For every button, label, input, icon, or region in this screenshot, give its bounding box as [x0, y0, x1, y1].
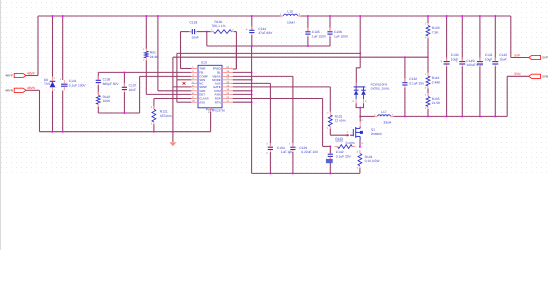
- junction RSN junction: [251, 93, 253, 95]
- junction C142 rail: [329, 172, 331, 174]
- ground symbol: [172, 132, 174, 142]
- wire 48VN lead: [26, 89, 39, 91]
- wire R130 right lead: [234, 31, 237, 33]
- wire 48VN riser: [39, 90, 41, 131]
- capacitor C145 100uF 6.3V: [459, 61, 465, 63]
- svg-text:C133: C133: [190, 21, 198, 25]
- resistor R121 357ohm: [152, 109, 156, 122]
- junction switch bus: [359, 15, 361, 17]
- svg-text:48VN: 48VN: [27, 86, 36, 90]
- wire C141 column top: [62, 16, 64, 80]
- wire C131 top lead: [479, 16, 481, 61]
- wire C142 top lead: [329, 146, 331, 153]
- wire D0 column top: [52, 16, 54, 77]
- capacitor C136 1uF 100V: [327, 31, 332, 33]
- resistor R105 21.5K: [426, 97, 430, 107]
- wire C137 branch: [123, 72, 125, 87]
- junction C130 rail: [446, 115, 448, 117]
- wire powerpad to gnd: [210, 112, 212, 132]
- wire R105 bottom lead: [427, 109, 429, 116]
- diode D0 TVS: [50, 80, 56, 82]
- wire switch jog: [356, 68, 360, 87]
- wire R91 to DET vertical: [145, 61, 147, 95]
- svg-text:0.1uF 100V: 0.1uF 100V: [69, 84, 87, 88]
- capacitor C141 0.1uF 100V: [61, 83, 68, 85]
- wire rail SEN long: [177, 52, 360, 54]
- wire RTN row: [233, 101, 252, 103]
- wire GATE row: [233, 86, 330, 88]
- wire diode mid drop: [359, 108, 361, 117]
- diode D2 RCWD10FN dual top bar: [354, 86, 366, 88]
- powerpad stub: [210, 108, 212, 112]
- junction C144 bus: [251, 15, 253, 17]
- wire C144 top lead: [251, 16, 253, 30]
- wire VDD column: [157, 16, 159, 91]
- wire gnd drop: [172, 57, 174, 132]
- capacitor C138 680pF 50V: [96, 79, 101, 81]
- svg-text:47uF 63V: 47uF 63V: [258, 31, 273, 35]
- svg-text:1uF 16V: 1uF 16V: [281, 150, 294, 154]
- resistor R119 2.49K: [426, 76, 430, 86]
- junction C132 top rail: [404, 56, 406, 58]
- wire 5VP drop: [510, 16, 512, 58]
- svg-text:1uF 100V: 1uF 100V: [334, 35, 349, 39]
- svg-text:R132: R132: [335, 137, 343, 141]
- junction C137 top: [123, 71, 125, 73]
- diode D2a: [354, 89, 359, 91]
- NC pin no-connect X: [183, 82, 186, 84]
- wire C141 column bottom: [62, 91, 64, 132]
- junction C144 rail: [251, 45, 253, 47]
- capacitor C131 10uF: [477, 61, 483, 63]
- wire RSN row: [233, 93, 252, 95]
- wire COMP vertical: [139, 76, 141, 113]
- wire SEN row: [177, 79, 192, 81]
- wire RSP link: [323, 145, 331, 147]
- junction COM junction: [251, 90, 253, 92]
- junction D0 top bus: [52, 15, 54, 17]
- wire rail RTN long: [173, 56, 428, 58]
- capacitor C137 10nF: [122, 86, 127, 88]
- junction FB tap: [427, 56, 429, 58]
- junction C135 rail: [307, 45, 309, 47]
- resistor R131 12 ohm: [328, 115, 332, 127]
- wire Q1 drain lead: [359, 116, 361, 121]
- svg-text:48VP: 48VP: [5, 74, 13, 78]
- svg-text:10nF: 10nF: [129, 88, 136, 92]
- wire BL row: [233, 71, 252, 73]
- wire RTN column: [251, 46, 253, 173]
- junction C131 rail: [479, 115, 481, 117]
- svg-text:+: +: [246, 28, 248, 32]
- wire D0 column bottom: [52, 91, 54, 132]
- R132 underline: [335, 140, 343, 142]
- junction C135 bus: [307, 15, 309, 17]
- Q1 gate pin dot: [347, 134, 349, 136]
- junction C134 rail: [269, 172, 271, 174]
- junction R105 rail: [427, 115, 429, 117]
- wire RSP row: [233, 98, 323, 100]
- capacitor C143 10uF: [492, 61, 498, 63]
- wire gate wire: [330, 134, 346, 136]
- junction C136 bus: [329, 15, 331, 17]
- wire output bottom rail: [393, 115, 507, 117]
- wire C138 to R118: [97, 85, 99, 95]
- inductor L10 10uH: [283, 14, 297, 16]
- svg-text:10uH: 10uH: [287, 20, 295, 24]
- junction C131 bus: [479, 15, 481, 17]
- junction C129 rail: [292, 172, 294, 174]
- wire C131 bottom lead: [479, 67, 481, 117]
- wire R130 drop: [235, 32, 237, 69]
- junction C137 bottom: [123, 112, 125, 114]
- wire MODE row: [233, 79, 252, 81]
- svg-text:+: +: [489, 59, 491, 63]
- svg-text:48VP: 48VP: [27, 71, 35, 75]
- junction RTN junction: [251, 101, 253, 103]
- wire 48VP riser: [37, 16, 39, 76]
- wire R119-R105 link: [427, 89, 429, 97]
- wire input + top bus: [38, 15, 283, 17]
- wire C138 branch top: [97, 72, 99, 80]
- wire C132 top lead: [404, 57, 406, 82]
- wire R131 bottom corner: [329, 129, 331, 135]
- wire C134 bottom: [269, 152, 271, 173]
- capacitor C133 10nF: [191, 29, 193, 34]
- wire ASS row: [177, 101, 192, 103]
- wire TMR vertical: [180, 32, 182, 69]
- junction C145 bus: [461, 15, 463, 17]
- svg-text:DIODE_DUAL: DIODE_DUAL: [371, 86, 391, 90]
- grid dots: [0, 0, 550, 177]
- svg-text:5VN: 5VN: [542, 74, 548, 78]
- wire R121 top lead: [153, 99, 155, 109]
- wire SEN drop: [176, 53, 178, 79]
- wire C144 bottom lead: [251, 35, 253, 46]
- svg-text:5VP: 5VP: [514, 53, 520, 57]
- net label box PGND: [326, 159, 333, 163]
- junction C143 rail: [494, 115, 496, 117]
- junction C132 bottom rail: [404, 115, 406, 117]
- resistor R118 100K: [96, 95, 100, 104]
- wire 5VP lead: [511, 57, 529, 59]
- connector 48VP: [14, 73, 26, 77]
- wire C142 bottom lead: [329, 159, 331, 174]
- svg-text:2N6660: 2N6660: [371, 132, 382, 136]
- svg-text:100K: 100K: [103, 99, 111, 103]
- wire ASS drop: [176, 80, 178, 102]
- wire R121 bottom lead: [153, 124, 155, 131]
- svg-text:0.22uF 10V: 0.22uF 10V: [301, 150, 319, 154]
- junction C130 bus: [446, 15, 448, 17]
- capacitor C142 0.1uF 25V: [328, 153, 333, 155]
- svg-text:TPS23750: TPS23750: [211, 108, 225, 112]
- junction D0 gnd: [52, 131, 54, 133]
- svg-text:5VN: 5VN: [514, 72, 521, 76]
- wire C130 bottom lead: [446, 67, 448, 117]
- svg-text:L10: L10: [287, 9, 293, 13]
- svg-text:TVS: TVS: [44, 82, 51, 86]
- svg-text:0.1uF 25V: 0.1uF 25V: [336, 155, 352, 159]
- wire R128 top lead: [427, 16, 429, 23]
- wire C129 bottom: [292, 152, 294, 173]
- svg-text:12 ohm: 12 ohm: [335, 119, 346, 123]
- wire C133 left lead: [181, 31, 192, 33]
- resistor R128 7.5K: [426, 26, 430, 37]
- wire 5VN riser: [506, 76, 508, 116]
- svg-text:21.5K: 21.5K: [432, 101, 441, 105]
- junction diode bottom: [359, 107, 361, 109]
- svg-text:RTN: RTN: [215, 100, 221, 104]
- capacitor C129 0.22uF 10V: [290, 146, 295, 148]
- wire Q1 source lead: [359, 140, 361, 147]
- svg-text:+: +: [474, 59, 476, 63]
- wire C133 to R130 node: [197, 31, 211, 33]
- capacitor C135 1uF 100V: [305, 31, 310, 33]
- diode D2b: [361, 89, 366, 91]
- wire C136 bottom: [329, 37, 331, 46]
- junction C133-R130 node: [206, 31, 208, 33]
- junction switch-output node: [359, 115, 361, 117]
- wire C130 top lead: [446, 16, 448, 61]
- wire COM row: [233, 90, 252, 92]
- svg-text:0.10 0.5W: 0.10 0.5W: [365, 159, 381, 163]
- svg-text:1uF 100V: 1uF 100V: [312, 35, 327, 39]
- svg-text:357ohm: 357ohm: [160, 114, 172, 118]
- svg-text:L17: L17: [381, 110, 387, 114]
- wire VBIAS drop: [292, 76, 294, 145]
- inductor L17 33uH: [378, 115, 391, 117]
- wire DET row: [146, 93, 191, 95]
- wire TMR row: [181, 68, 192, 70]
- capacitor C130 10uF: [444, 61, 450, 63]
- svg-text:33uH: 33uH: [383, 121, 391, 125]
- connector 5VN: [529, 74, 541, 78]
- wire C135 top: [307, 16, 309, 31]
- page border left: [0, 0, 2, 250]
- wire R91 top lead: [145, 16, 147, 49]
- wire 48VP lead: [26, 75, 38, 77]
- junction gnd bus junction: [172, 131, 174, 133]
- wire bias rail drop from node: [206, 32, 208, 46]
- wire 5VN lead: [507, 75, 529, 77]
- capacitor C144 47uF 63V: [249, 29, 254, 31]
- wire C137 bottom: [123, 92, 125, 113]
- svg-text:10uF: 10uF: [499, 58, 506, 62]
- connector 5VP: [529, 55, 541, 59]
- svg-text:5VP: 5VP: [542, 56, 548, 60]
- wire top bus after L10: [298, 15, 511, 17]
- junction R128 bus: [427, 15, 429, 17]
- wire FREQ row: [233, 68, 237, 70]
- junction C141 top bus: [62, 15, 64, 17]
- resistor R124 0.10 0.5W: [358, 154, 362, 166]
- junction R121 gnd: [153, 131, 155, 133]
- svg-text:680pF 50V: 680pF 50V: [103, 82, 120, 86]
- wire AUX row: [233, 82, 271, 84]
- resistor R130 78K,1 1%: [214, 30, 232, 34]
- svg-text:7.5K: 7.5K: [432, 30, 440, 34]
- wire R118 bottom lead: [97, 107, 99, 113]
- wire CLASS row: [154, 98, 192, 100]
- wire AUX drop: [269, 83, 271, 145]
- capacitor C134 1uF 16V: [268, 146, 273, 148]
- wire C132 bottom lead: [404, 88, 406, 117]
- resistor R91 24.9K: [144, 51, 148, 58]
- wire RSP drop: [322, 99, 324, 147]
- junction C143 bus: [494, 15, 496, 17]
- wire bias rail y46: [207, 45, 330, 47]
- wire COMP row: [140, 75, 192, 77]
- junction C141 gnd: [62, 131, 64, 133]
- wire diode bottom bar: [356, 103, 363, 107]
- wire mid bottom rail: [252, 172, 360, 174]
- connector 48VN: [14, 88, 26, 92]
- wire FREQ riser: [235, 46, 237, 69]
- wire VBIAS row: [233, 75, 293, 77]
- wire SENP row: [173, 86, 192, 88]
- wire C143 top lead: [494, 16, 496, 61]
- junction C145 rail: [461, 115, 463, 117]
- wire box bottom rail: [98, 112, 139, 114]
- wire FB rail: [98, 71, 191, 73]
- wire C145 top lead: [461, 16, 463, 61]
- svg-text:0 ohm: 0 ohm: [346, 141, 355, 145]
- junction Q1 source node: [359, 146, 361, 148]
- capacitor C132 0.1uF 25V: [402, 82, 407, 84]
- junction C142 node: [329, 145, 331, 147]
- wire R124 bottom lead: [359, 168, 361, 173]
- svg-text:48VN: 48VN: [5, 88, 13, 92]
- wire C145 bottom lead: [461, 67, 463, 117]
- junction R91 bus: [145, 15, 147, 17]
- svg-text:10nF: 10nF: [192, 36, 199, 40]
- wire tap to R119: [427, 57, 429, 75]
- junction rail1 end: [359, 52, 361, 54]
- wire GATE drop: [329, 87, 331, 112]
- svg-text:ASS: ASS: [199, 100, 205, 104]
- junction BL junction: [251, 71, 253, 73]
- svg-text:U13: U13: [201, 61, 207, 65]
- transistor Q1 2N6660: [350, 126, 363, 140]
- op-amp U1 controller U13 TPS23750: [198, 65, 222, 108]
- wire VDD row: [158, 90, 192, 92]
- wire R128 to tap: [427, 38, 429, 57]
- wire C136 top: [329, 16, 331, 31]
- resistor R132 0 ohm: [338, 145, 353, 149]
- svg-text:78K,1 1%: 78K,1 1%: [212, 24, 226, 28]
- wire C135 bottom: [307, 37, 309, 46]
- junction MODE junction: [251, 79, 253, 81]
- wire switch riser: [359, 16, 361, 68]
- svg-text:+: +: [456, 59, 458, 63]
- junction VDD bus: [157, 15, 159, 17]
- wire C143 bottom lead: [494, 67, 496, 117]
- svg-text:2.49K: 2.49K: [432, 81, 441, 85]
- svg-text:0.1uF 25V: 0.1uF 25V: [409, 82, 425, 86]
- wire rail to L17: [360, 115, 374, 117]
- wire ground bus bottom left: [40, 131, 211, 133]
- svg-text:+: +: [440, 59, 442, 63]
